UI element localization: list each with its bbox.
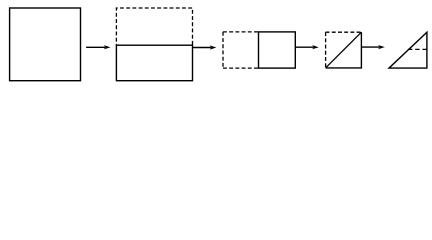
- arrow 3: [295, 45, 319, 49]
- group 4 dashed edges (left + top): [326, 32, 362, 68]
- group 2 dashed box (upper): [116, 8, 192, 45]
- group 4 solid edges (right + bottom): [326, 32, 362, 68]
- group 3 dashed box (left half): [223, 32, 259, 68]
- arrow 1: [86, 45, 110, 49]
- group 3 solid box (right half): [259, 32, 296, 68]
- arrow 4: [361, 45, 384, 49]
- arrow 2: [193, 45, 217, 49]
- triangle (stage 5): [389, 32, 427, 68]
- group 4 diagonal: [326, 32, 362, 68]
- box 1 (solid square, stage 1): [10, 8, 81, 81]
- group 2 solid box (lower): [116, 45, 192, 80]
- triangle dashed level line: [406, 48, 427, 50]
